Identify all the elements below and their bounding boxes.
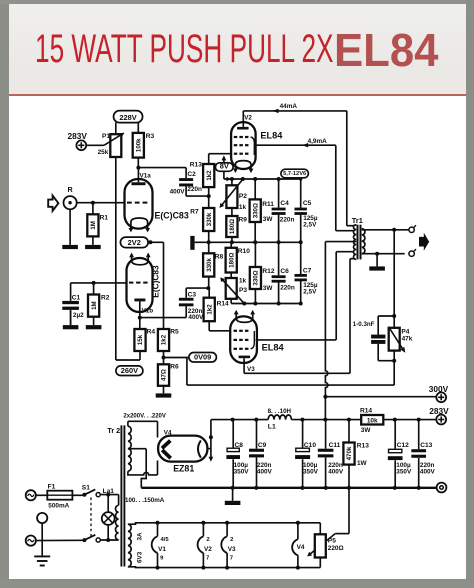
svg-text:6V3: 6V3 xyxy=(137,551,144,563)
svg-text:1k2: 1k2 xyxy=(206,304,213,315)
svg-text:EL84: EL84 xyxy=(262,343,285,353)
svg-text:100k: 100k xyxy=(136,138,143,152)
svg-text:400V: 400V xyxy=(170,189,186,196)
svg-text:C11: C11 xyxy=(329,442,341,449)
svg-text:R7: R7 xyxy=(190,209,199,216)
svg-text:P4: P4 xyxy=(401,328,409,335)
svg-text:2,5V: 2,5V xyxy=(303,289,317,296)
svg-text:R14: R14 xyxy=(360,407,372,414)
svg-text:S1: S1 xyxy=(82,485,90,492)
svg-text:220Ω: 220Ω xyxy=(328,545,344,552)
svg-text:C6: C6 xyxy=(280,268,289,275)
svg-text:7: 7 xyxy=(230,556,234,562)
svg-text:4/5: 4/5 xyxy=(161,537,170,543)
svg-text:C7: C7 xyxy=(303,267,312,274)
svg-text:228V: 228V xyxy=(119,113,136,122)
svg-text:350V: 350V xyxy=(234,469,250,476)
svg-text:Tr 2: Tr 2 xyxy=(107,426,120,435)
svg-text:C1: C1 xyxy=(72,295,81,302)
svg-text:220n: 220n xyxy=(280,284,295,291)
svg-text:3A: 3A xyxy=(137,532,144,541)
svg-text:F1: F1 xyxy=(48,483,56,490)
svg-text:R: R xyxy=(68,185,74,194)
svg-text:EZ81: EZ81 xyxy=(173,463,194,473)
svg-text:47Ω: 47Ω xyxy=(161,369,168,381)
svg-text:V1b: V1b xyxy=(142,307,154,314)
svg-text:180Ω: 180Ω xyxy=(229,219,236,234)
svg-text:Tr1: Tr1 xyxy=(352,216,363,225)
svg-text:R6: R6 xyxy=(170,363,179,370)
svg-text:V4: V4 xyxy=(297,544,305,551)
svg-text:1-0.3nF: 1-0.3nF xyxy=(353,321,375,328)
svg-text:R12: R12 xyxy=(262,268,274,275)
svg-text:R4: R4 xyxy=(147,328,156,335)
svg-text:0V09: 0V09 xyxy=(194,352,211,361)
svg-text:330Ω: 330Ω xyxy=(253,270,260,285)
svg-text:R8: R8 xyxy=(215,253,224,260)
svg-text:2,5V: 2,5V xyxy=(303,221,317,228)
svg-text:9: 9 xyxy=(160,556,164,562)
svg-text:1M: 1M xyxy=(90,221,97,230)
svg-text:3W: 3W xyxy=(361,427,372,434)
svg-text:220n: 220n xyxy=(187,186,202,193)
svg-text:C4: C4 xyxy=(280,200,289,207)
svg-text:400V: 400V xyxy=(257,469,273,476)
svg-text:EL84: EL84 xyxy=(260,131,283,141)
svg-text:220n: 220n xyxy=(280,217,295,224)
svg-text:5,7-12V6: 5,7-12V6 xyxy=(283,171,306,177)
svg-text:R9: R9 xyxy=(239,216,248,223)
svg-text:2V2: 2V2 xyxy=(128,238,141,247)
svg-text:1M: 1M xyxy=(91,301,98,310)
svg-text:E(C)C83: E(C)C83 xyxy=(155,210,189,220)
svg-text:P2: P2 xyxy=(239,193,247,200)
svg-text:4,9mA: 4,9mA xyxy=(308,138,328,145)
svg-text:2x200V. . .220V: 2x200V. . .220V xyxy=(123,414,165,420)
svg-text:3W: 3W xyxy=(263,216,274,223)
svg-text:R2: R2 xyxy=(101,295,110,302)
svg-text:R13: R13 xyxy=(357,442,369,449)
svg-text:L1: L1 xyxy=(268,424,276,431)
svg-text:8V: 8V xyxy=(220,162,229,171)
svg-text:3W: 3W xyxy=(263,285,274,292)
svg-text:10k: 10k xyxy=(367,418,378,425)
svg-text:V1: V1 xyxy=(158,546,166,553)
svg-text:R11: R11 xyxy=(262,201,274,208)
svg-text:V3: V3 xyxy=(247,366,255,373)
svg-text:C13: C13 xyxy=(420,442,432,449)
svg-text:330k: 330k xyxy=(206,258,213,272)
svg-text:R14: R14 xyxy=(217,301,229,308)
svg-text:1k2: 1k2 xyxy=(161,334,168,345)
svg-text:1k: 1k xyxy=(239,277,247,284)
svg-text:P3: P3 xyxy=(239,287,247,294)
svg-text:P1: P1 xyxy=(102,133,110,140)
svg-text:V4: V4 xyxy=(164,430,172,437)
svg-text:C5: C5 xyxy=(303,200,312,207)
svg-text:V2: V2 xyxy=(244,115,252,122)
svg-text:400V: 400V xyxy=(420,469,436,476)
svg-text:330k: 330k xyxy=(206,212,213,226)
svg-text:400V: 400V xyxy=(328,469,344,476)
svg-text:V2: V2 xyxy=(204,546,212,553)
svg-text:15k: 15k xyxy=(137,334,144,345)
svg-text:500mA: 500mA xyxy=(48,503,69,510)
svg-text:180Ω: 180Ω xyxy=(228,252,235,267)
svg-text:330Ω: 330Ω xyxy=(252,203,259,218)
svg-text:C12: C12 xyxy=(397,442,409,449)
svg-text:350V: 350V xyxy=(303,469,319,476)
svg-text:R5: R5 xyxy=(170,328,179,335)
svg-text:R1: R1 xyxy=(100,215,109,222)
svg-text:R13: R13 xyxy=(190,161,202,168)
svg-text:P5: P5 xyxy=(328,537,336,544)
svg-text:44mA: 44mA xyxy=(280,103,298,110)
svg-text:2µ2: 2µ2 xyxy=(73,312,84,319)
svg-text:100. . .150mA: 100. . .150mA xyxy=(125,497,165,504)
svg-text:283V: 283V xyxy=(68,131,88,141)
svg-text:R3: R3 xyxy=(146,133,155,140)
svg-text:C9: C9 xyxy=(258,442,267,449)
svg-text:C3: C3 xyxy=(188,292,197,299)
svg-text:470k: 470k xyxy=(346,446,353,460)
svg-text:8. . .10H: 8. . .10H xyxy=(268,408,292,415)
svg-text:1k: 1k xyxy=(239,204,247,211)
svg-text:350V: 350V xyxy=(396,469,412,476)
svg-text:1W: 1W xyxy=(357,460,368,467)
svg-text:E(C)C83: E(C)C83 xyxy=(151,265,161,298)
svg-text:47k: 47k xyxy=(402,336,413,343)
svg-text:V1a: V1a xyxy=(140,173,152,180)
svg-text:260V: 260V xyxy=(121,366,138,375)
svg-text:V3: V3 xyxy=(228,546,236,553)
svg-text:7: 7 xyxy=(206,556,210,562)
svg-text:R10: R10 xyxy=(238,248,250,255)
svg-text:C2: C2 xyxy=(187,171,196,178)
svg-text:2: 2 xyxy=(230,537,234,543)
svg-text:2: 2 xyxy=(206,537,210,543)
svg-text:400V: 400V xyxy=(188,314,204,321)
svg-text:1k2: 1k2 xyxy=(206,170,213,181)
svg-text:25k: 25k xyxy=(98,149,109,156)
